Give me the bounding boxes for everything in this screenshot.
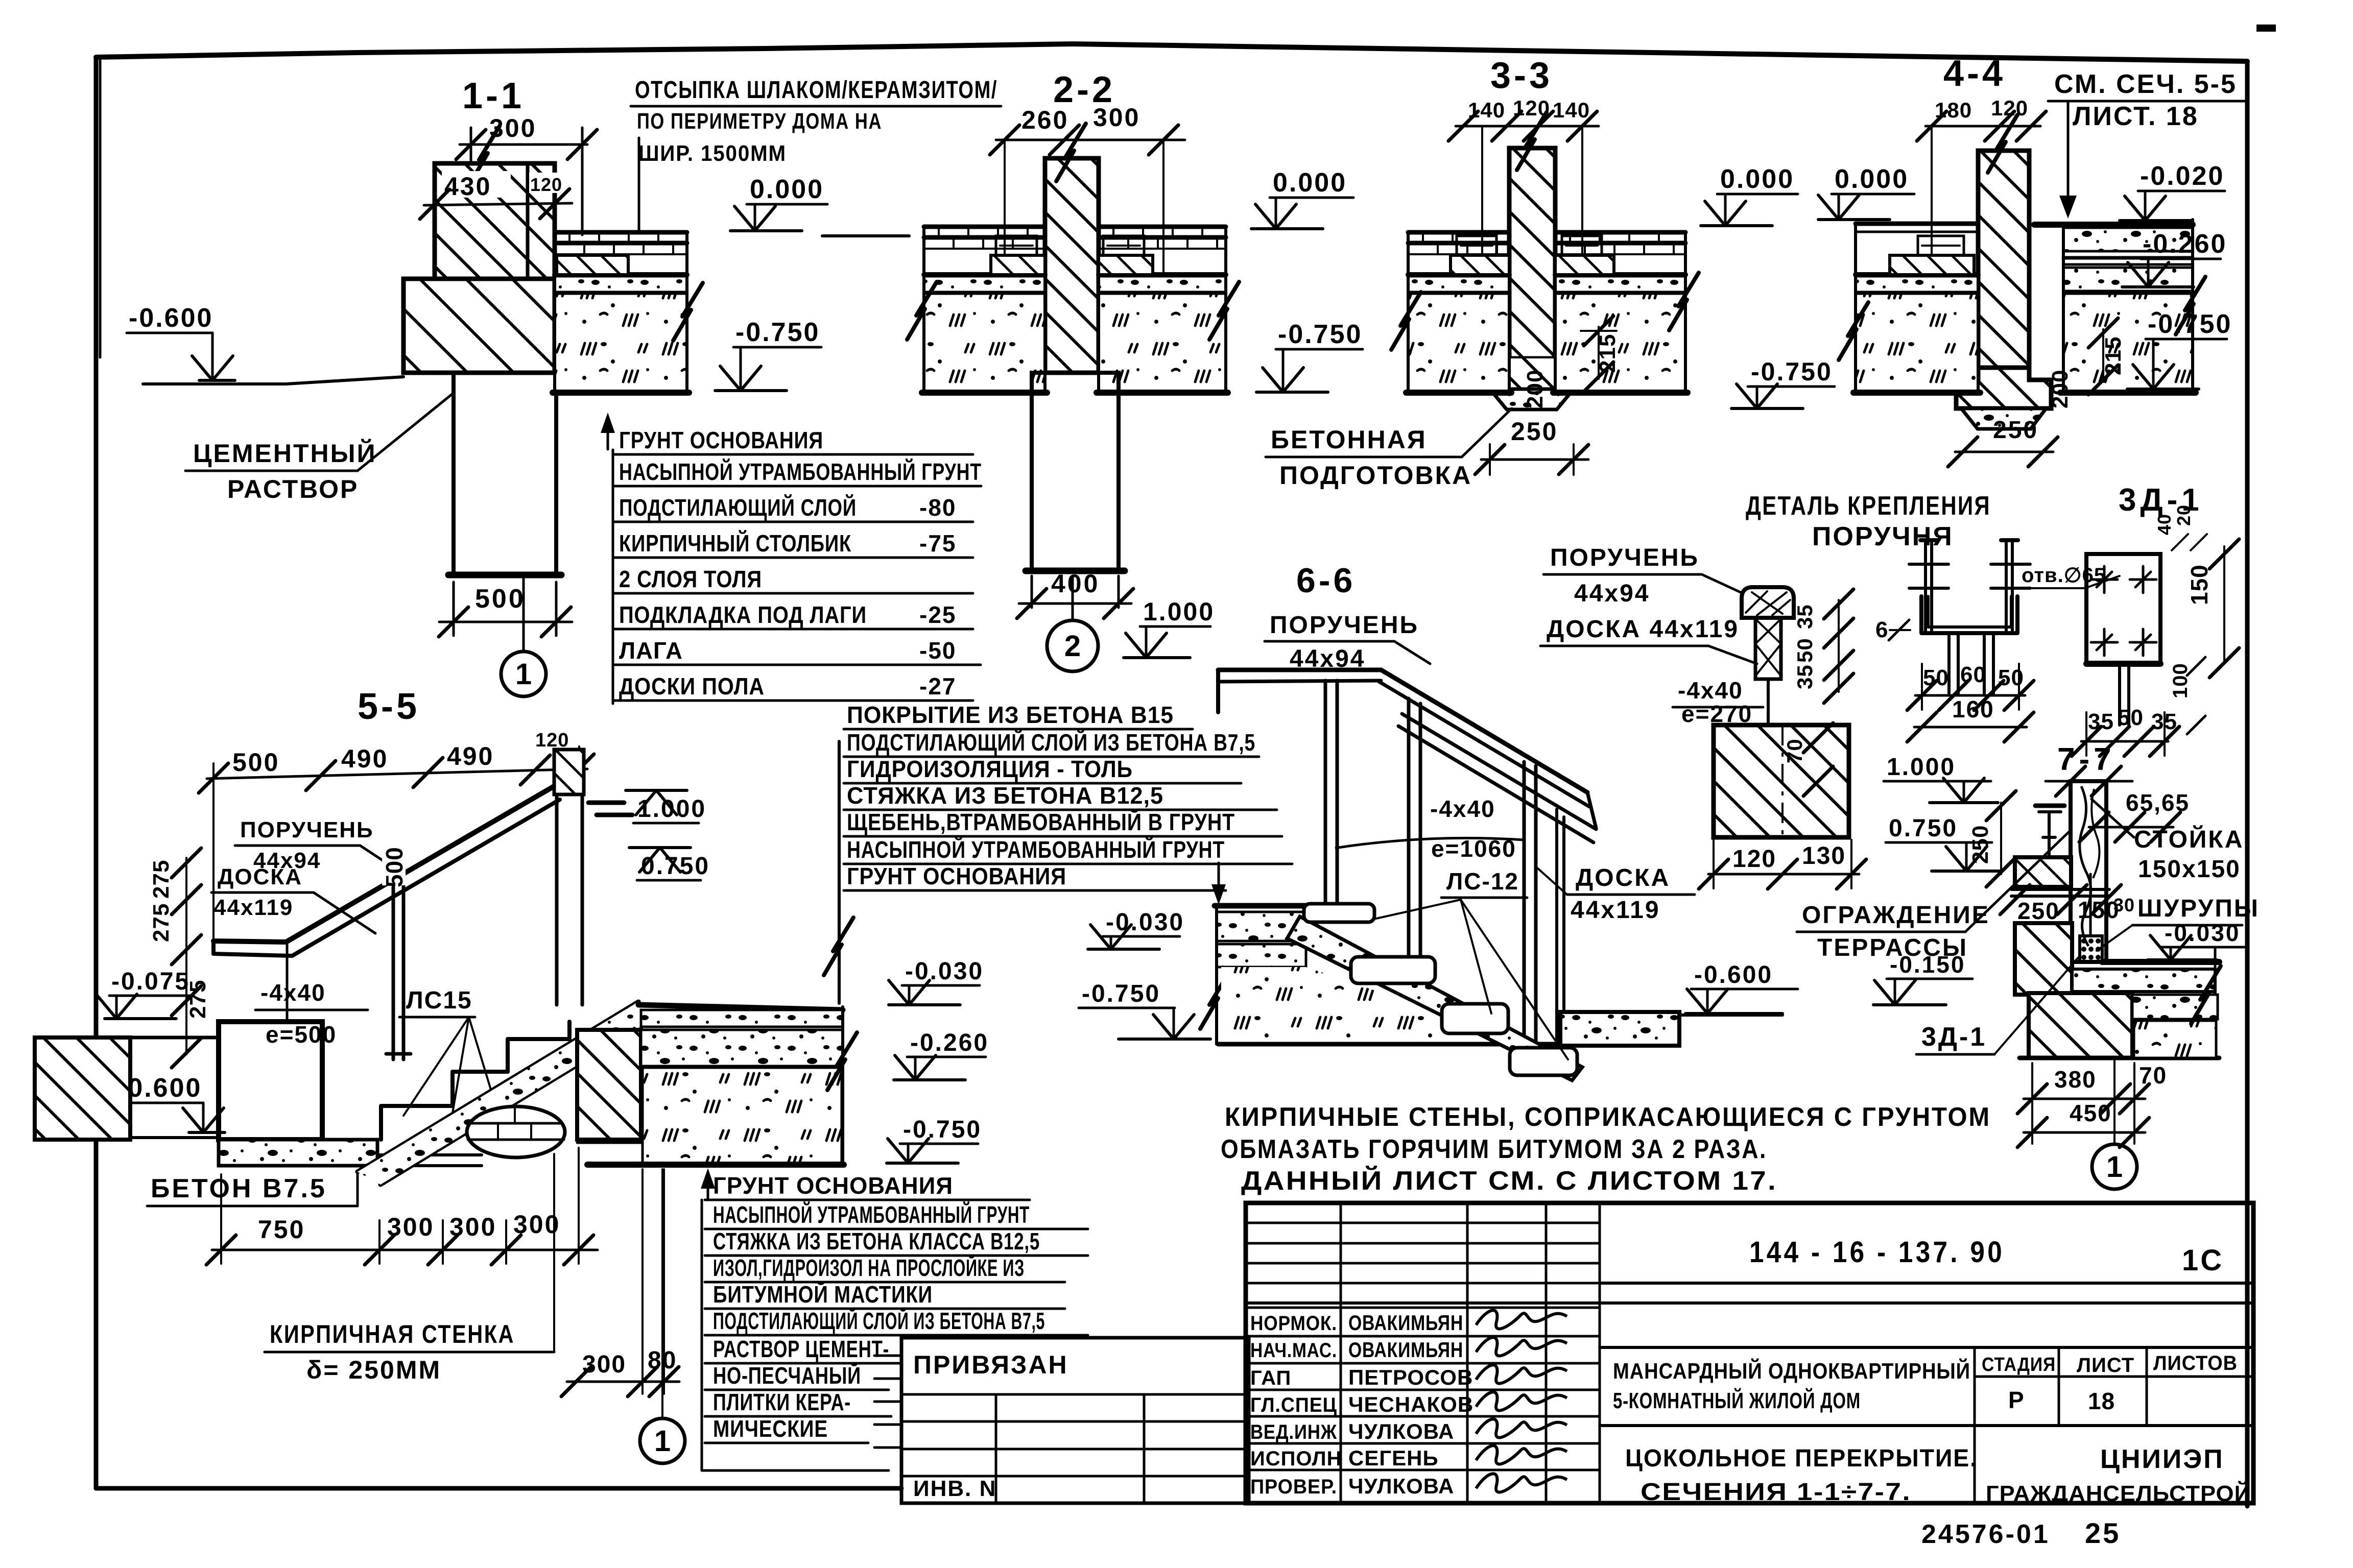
section 6-6 post 1 bbox=[1324, 681, 1327, 905]
svg-text:ЧЕСНАКОВ: ЧЕСНАКОВ bbox=[1348, 1392, 1473, 1416]
section 2-2 wall column hatched bbox=[1045, 158, 1099, 373]
svg-text:1.000: 1.000 bbox=[637, 795, 706, 823]
section 4-4 column footing hatched bbox=[1956, 368, 2051, 408]
section 4-4 right floor break bbox=[2176, 277, 2205, 334]
svg-text:275: 275 bbox=[149, 860, 174, 899]
svg-text:380: 380 bbox=[2054, 1066, 2097, 1093]
svg-text:ЦЕМЕНТНЫЙ: ЦЕМЕНТНЫЙ bbox=[193, 439, 377, 468]
section 2-2 right floor slab bbox=[1099, 225, 1226, 229]
level 0.750 (5-5) bbox=[629, 846, 691, 849]
svg-text:ДЕТАЛЬ КРЕПЛЕНИЯ: ДЕТАЛЬ КРЕПЛЕНИЯ bbox=[1746, 491, 1991, 521]
svg-text:МАНСАРДНЫЙ ОДНОКВАРТИРНЫЙ: МАНСАРДНЫЙ ОДНОКВАРТИРНЫЙ bbox=[1613, 1358, 1970, 1384]
svg-text:ДОСКА: ДОСКА bbox=[218, 864, 302, 889]
svg-text:-0.030: -0.030 bbox=[2165, 920, 2240, 946]
section 3-3 concrete pad bbox=[1490, 389, 1574, 409]
svg-text:5-КОМНАТНЫЙ ЖИЛОЙ ДОМ: 5-КОМНАТНЫЙ ЖИЛОЙ ДОМ bbox=[1613, 1387, 1861, 1413]
svg-text:ВЕД.ИНЖ: ВЕД.ИНЖ bbox=[1250, 1421, 1337, 1443]
svg-text:4-4: 4-4 bbox=[1943, 53, 2006, 94]
svg-text:0.750: 0.750 bbox=[1889, 815, 1958, 842]
section 5-5 upper floor slab right bbox=[638, 1005, 843, 1010]
svg-text:РАСТВОР: РАСТВОР bbox=[227, 475, 359, 503]
svg-text:НАЧ.МАС.: НАЧ.МАС. bbox=[1250, 1339, 1337, 1362]
svg-text:500: 500 bbox=[475, 584, 526, 614]
detail bolt shaft bbox=[1767, 679, 1770, 794]
svg-text:44x119: 44x119 bbox=[213, 895, 293, 920]
svg-text:120: 120 bbox=[1732, 846, 1776, 873]
section 7-7 upper pier block bbox=[2015, 857, 2071, 887]
section 5-5 concrete slab B7.5 bbox=[219, 1140, 377, 1166]
svg-text:-0.260: -0.260 bbox=[910, 1029, 989, 1056]
section 2-2 left floor slab bbox=[924, 225, 1045, 229]
section 6-6 left slab layers bbox=[1215, 903, 1309, 909]
svg-text:44x119: 44x119 bbox=[1571, 897, 1660, 924]
svg-text:140: 140 bbox=[1553, 98, 1590, 122]
svg-text:70: 70 bbox=[2139, 1062, 2167, 1089]
svg-text:БИТУМНОЙ МАСТИКИ: БИТУМНОЙ МАСТИКИ bbox=[713, 1281, 933, 1308]
svg-text:6-6: 6-6 bbox=[1296, 561, 1356, 600]
svg-text:50: 50 bbox=[1793, 638, 1817, 663]
svg-text:3Д-1: 3Д-1 bbox=[1921, 1022, 1987, 1052]
svg-text:1: 1 bbox=[654, 1425, 671, 1458]
svg-text:ОТСЫПКА ШЛАКОМ/КЕРАМЗИТОМ/: ОТСЫПКА ШЛАКОМ/КЕРАМЗИТОМ/ bbox=[635, 77, 997, 104]
section 3-3 left floor break bbox=[1391, 292, 1421, 350]
section 7-7 wooden post bbox=[2071, 781, 2106, 962]
section 6-6 step 1 bbox=[1304, 904, 1374, 922]
layers list (floor build-up table 1) bbox=[612, 450, 614, 704]
svg-text:ГИДРОИЗОЛЯЦИЯ - ТОЛЬ: ГИДРОИЗОЛЯЦИЯ - ТОЛЬ bbox=[847, 756, 1133, 782]
svg-text:100: 100 bbox=[2169, 663, 2192, 698]
svg-text:750: 750 bbox=[258, 1215, 305, 1244]
svg-text:0.000: 0.000 bbox=[1720, 164, 1794, 194]
section 7-7 node circle 1 bbox=[2092, 1144, 2137, 1189]
note sm sech leader arrow bbox=[2067, 101, 2070, 204]
svg-text:КИРПИЧНЫЕ СТЕНЫ, СОПРИКАСАЮЩИЕ: КИРПИЧНЫЕ СТЕНЫ, СОПРИКАСАЮЩИЕСЯ С ГРУНТ… bbox=[1225, 1102, 1991, 1132]
svg-text:СТАДИЯ: СТАДИЯ bbox=[1982, 1354, 2056, 1376]
section 7-7 lower floor right bbox=[2132, 995, 2218, 1019]
svg-text:НОРМОК.: НОРМОК. bbox=[1250, 1312, 1337, 1335]
svg-text:ПОРУЧЕНЬ: ПОРУЧЕНЬ bbox=[1270, 612, 1419, 639]
svg-text:130: 130 bbox=[1802, 842, 1846, 870]
svg-text:ПОДСТИЛАЮЩИЙ СЛОЙ: ПОДСТИЛАЮЩИЙ СЛОЙ bbox=[619, 494, 857, 521]
svg-text:ПОКРЫТИЕ ИЗ БЕТОНА В15: ПОКРЫТИЕ ИЗ БЕТОНА В15 bbox=[847, 702, 1174, 728]
svg-text:ПОДГОТОВКА: ПОДГОТОВКА bbox=[1279, 461, 1472, 490]
svg-text:ЦОКОЛЬНОЕ ПЕРЕКРЫТИЕ.: ЦОКОЛЬНОЕ ПЕРЕКРЫТИЕ. bbox=[1625, 1445, 1978, 1472]
svg-text:450: 450 bbox=[2070, 1100, 2112, 1126]
note otsypka leader bbox=[638, 138, 640, 231]
section 2-2 foundation pier bbox=[1032, 373, 1119, 571]
svg-text:35: 35 bbox=[1793, 664, 1817, 689]
section 6-6 left slab break bbox=[1200, 971, 1230, 1029]
svg-text:ГРАЖДАНСЕЛЬСТРОЙ: ГРАЖДАНСЕЛЬСТРОЙ bbox=[1986, 1480, 2251, 1506]
section 5-5 anchor symbol bbox=[588, 801, 624, 805]
svg-text:-4x40: -4x40 bbox=[1430, 795, 1495, 822]
section 5-5 stone blob bbox=[467, 1106, 565, 1157]
svg-text:ПОДКЛАДКА ПОД ЛАГИ: ПОДКЛАДКА ПОД ЛАГИ bbox=[619, 601, 867, 628]
svg-text:ЩЕБЕНЬ,ВТРАМБОВАННЫЙ В ГРУНТ: ЩЕБЕНЬ,ВТРАМБОВАННЫЙ В ГРУНТ bbox=[847, 809, 1235, 835]
title block signatures bbox=[1476, 1310, 1567, 1329]
svg-text:НАСЫПНОЙ УТРАМБОВАННЫЙ ГРУНТ: НАСЫПНОЙ УТРАМБОВАННЫЙ ГРУНТ bbox=[847, 836, 1225, 863]
svg-text:300: 300 bbox=[582, 1351, 626, 1378]
svg-text:ОГРАЖДЕНИЕ: ОГРАЖДЕНИЕ bbox=[1802, 902, 1990, 929]
svg-text:0.750: 0.750 bbox=[641, 853, 710, 880]
svg-text:150: 150 bbox=[2186, 564, 2213, 605]
drawing frame border bbox=[96, 44, 2247, 61]
section 6-6 stringer band bbox=[1287, 916, 1582, 1080]
detail pier hatched bbox=[1714, 725, 1849, 837]
svg-text:СТОЙКА: СТОЙКА bbox=[2134, 825, 2244, 853]
svg-text:-50: -50 bbox=[919, 637, 956, 664]
svg-text:250: 250 bbox=[1968, 825, 1993, 864]
section 6-6 bottom landing slab bbox=[1560, 1012, 1679, 1046]
section 4-4 wall column hatched bbox=[1978, 151, 2029, 368]
svg-text:ГРУНТ ОСНОВАНИЯ: ГРУНТ ОСНОВАНИЯ bbox=[847, 863, 1066, 889]
detail vertical dims 35 50 35 bbox=[1838, 600, 1840, 692]
svg-text:160: 160 bbox=[1952, 696, 1994, 722]
section 6-6 handrail sloped bbox=[1381, 670, 1587, 792]
svg-text:44x94: 44x94 bbox=[1574, 580, 1650, 607]
svg-text:ДОСКИ ПОЛА: ДОСКИ ПОЛА bbox=[619, 673, 765, 699]
section 1-1 floor break mark bbox=[673, 283, 703, 341]
section 7-7 big pier hatched bbox=[2029, 993, 2132, 1058]
section 6-6 note leader arrow bbox=[1218, 863, 1220, 900]
section 7-7 terrace slab bbox=[2102, 959, 2219, 965]
bracket U-channel bolts bbox=[1924, 543, 1927, 631]
section 6-6 stair mass bbox=[1221, 967, 1532, 1044]
bracket U-channel legs bbox=[1947, 633, 1951, 693]
section 3-3 column footing bbox=[1484, 358, 1581, 389]
section 5-5 handrail post 2 bbox=[555, 795, 559, 1005]
section 7-7 lower pier hatched bbox=[2015, 923, 2072, 995]
svg-text:150x150: 150x150 bbox=[2138, 856, 2241, 883]
section 3-3 left floor slab bbox=[1408, 230, 1509, 235]
section 4-4 right terrace floor bbox=[2034, 222, 2193, 228]
svg-text:40: 40 bbox=[2154, 514, 2175, 535]
svg-text:50: 50 bbox=[1923, 665, 1949, 690]
svg-text:ПОРУЧЕНЬ: ПОРУЧЕНЬ bbox=[1550, 544, 1699, 571]
svg-text:ИЗОЛ,ГИДРОИЗОЛ НА ПРОСЛОЙКЕ И: ИЗОЛ,ГИДРОИЗОЛ НА ПРОСЛОЙКЕ ИЗ bbox=[713, 1255, 1025, 1281]
svg-text:ПЛИТКИ КЕРА-: ПЛИТКИ КЕРА- bbox=[713, 1389, 851, 1415]
svg-text:ЛАГА: ЛАГА bbox=[619, 637, 683, 664]
svg-text:-0.150: -0.150 bbox=[1890, 951, 1965, 978]
section 5-5 stringer band sloped bbox=[358, 1002, 638, 1172]
section 2-2 node circle 2 bbox=[1047, 620, 1098, 671]
svg-text:275: 275 bbox=[149, 903, 174, 942]
svg-text:-0.020: -0.020 bbox=[2140, 161, 2224, 191]
section 6-6 step 3 bbox=[1442, 1004, 1508, 1033]
bracket plate holes crosses bbox=[2091, 578, 2118, 581]
section 6-6 step 4 bbox=[1510, 1048, 1577, 1075]
svg-text:6: 6 bbox=[1875, 617, 1888, 642]
svg-text:ШУРУПЫ: ШУРУПЫ bbox=[2137, 895, 2260, 922]
section 5-5 vertical dims 275 bbox=[185, 858, 187, 1054]
section 6-6 handrail flat bbox=[1218, 668, 1381, 672]
detail plank bbox=[1755, 618, 1781, 679]
svg-text:-0.030: -0.030 bbox=[1106, 909, 1184, 936]
svg-text:ГРУНТ ОСНОВАНИЯ: ГРУНТ ОСНОВАНИЯ bbox=[713, 1172, 953, 1199]
svg-text:0.000: 0.000 bbox=[750, 175, 824, 204]
svg-text:3-3: 3-3 bbox=[1490, 55, 1553, 96]
svg-text:300: 300 bbox=[1093, 103, 1140, 132]
section 1-1 dim 430 bbox=[442, 171, 511, 198]
section 5-5 wall edge above floor bbox=[838, 741, 841, 1003]
section 5-5 right wall hatched bbox=[577, 1030, 641, 1140]
svg-text:НАСЫПНОЙ УТРАМБОВАННЫЙ ГРУНТ: НАСЫПНОЙ УТРАМБОВАННЫЙ ГРУНТ bbox=[713, 1201, 1030, 1228]
svg-text:ПО ПЕРИМЕТРУ ДОМА НА: ПО ПЕРИМЕТРУ ДОМА НА bbox=[637, 109, 882, 134]
layers list (floor build-up table 2) bbox=[701, 1200, 703, 1470]
svg-text:490: 490 bbox=[447, 742, 494, 770]
svg-text:ГЛ.СПЕЦ: ГЛ.СПЕЦ bbox=[1250, 1394, 1337, 1416]
svg-text:Р: Р bbox=[2008, 1387, 2025, 1413]
svg-text:ПОРУЧЕНЬ: ПОРУЧЕНЬ bbox=[240, 817, 374, 842]
svg-text:7-7: 7-7 bbox=[2057, 742, 2116, 777]
svg-text:20: 20 bbox=[2173, 504, 2194, 526]
svg-text:РАСТВОР ЦЕМЕНТ-: РАСТВОР ЦЕМЕНТ- bbox=[713, 1336, 889, 1362]
svg-text:ЛИСТ: ЛИСТ bbox=[2077, 1354, 2134, 1377]
svg-text:-0.750: -0.750 bbox=[1751, 357, 1833, 386]
svg-text:25: 25 bbox=[2085, 1517, 2121, 1549]
section 6-6 ground line right bbox=[1680, 1014, 1782, 1017]
section 5-5 steps bbox=[381, 1022, 569, 1140]
section 3-3 wall column hatched bbox=[1509, 148, 1555, 358]
svg-text:КИРПИЧНЫЙ СТОЛБИК: КИРПИЧНЫЙ СТОЛБИК bbox=[619, 530, 851, 557]
svg-text:1: 1 bbox=[2106, 1150, 2123, 1184]
svg-text:БЕТОН В7.5: БЕТОН В7.5 bbox=[151, 1174, 327, 1203]
svg-text:500: 500 bbox=[381, 847, 408, 887]
svg-text:5-5: 5-5 bbox=[358, 686, 420, 727]
bracket U-channel body bbox=[1921, 596, 2017, 633]
section 1-1 upper wall hatched bbox=[435, 163, 555, 279]
svg-text:e=500: e=500 bbox=[266, 1021, 337, 1048]
svg-text:ОВАКИМЬЯН: ОВАКИМЬЯН bbox=[1348, 1338, 1463, 1362]
section 3-3 right floor slab bbox=[1555, 230, 1685, 235]
svg-text:0.000: 0.000 bbox=[1273, 168, 1347, 198]
svg-text:НО-ПЕСЧАНЫЙ: НО-ПЕСЧАНЫЙ bbox=[713, 1362, 861, 1389]
section 5-5 floor break right bbox=[827, 1032, 857, 1090]
svg-text:18: 18 bbox=[2088, 1388, 2115, 1414]
svg-text:ЛИСТОВ: ЛИСТОВ bbox=[2153, 1352, 2238, 1374]
svg-text:430: 430 bbox=[444, 172, 491, 201]
svg-text:ЧУЛКОВА: ЧУЛКОВА bbox=[1348, 1419, 1454, 1443]
svg-text:35: 35 bbox=[2088, 709, 2114, 734]
svg-text:ДАННЫЙ ЛИСТ СМ. С ЛИСТОМ: ДАННЫЙ ЛИСТ СМ. С ЛИСТОМ 17. bbox=[1241, 1166, 1777, 1196]
svg-text:1: 1 bbox=[515, 658, 532, 691]
svg-text:СТЯЖКА ИЗ БЕТОНА В12,5: СТЯЖКА ИЗ БЕТОНА В12,5 bbox=[847, 782, 1163, 809]
svg-text:250: 250 bbox=[1511, 417, 1558, 446]
section 2-2 left floor break bbox=[907, 282, 937, 340]
svg-text:ПОДСТИЛАЮЩИЙ СЛОЙ ИЗ БЕТОНА В7: ПОДСТИЛАЮЩИЙ СЛОЙ ИЗ БЕТОНА В7,5 bbox=[847, 729, 1255, 756]
section 4-4 left floor slab bbox=[1856, 222, 1978, 226]
svg-text:БЕТОННАЯ: БЕТОННАЯ bbox=[1271, 425, 1427, 454]
svg-text:-80: -80 bbox=[919, 494, 956, 521]
section 7-7 bolt bbox=[2035, 804, 2064, 808]
svg-text:СЕЧЕНИЯ 1-1÷7-7.: СЕЧЕНИЯ 1-1÷7-7. bbox=[1641, 1479, 1911, 1506]
svg-text:-0.030: -0.030 bbox=[905, 958, 984, 985]
svg-text:490: 490 bbox=[341, 744, 388, 773]
svg-text:1-1: 1-1 bbox=[462, 76, 525, 116]
svg-text:250: 250 bbox=[2017, 898, 2060, 924]
svg-text:КИРПИЧНАЯ СТЕНКА: КИРПИЧНАЯ СТЕНКА bbox=[270, 1320, 515, 1348]
svg-text:δ= 250ММ: δ= 250ММ bbox=[306, 1356, 441, 1384]
section 1-1 lower wall hatched bbox=[403, 279, 555, 373]
section 2-2 dim 400 bbox=[1031, 576, 1033, 608]
bracket plate leg bbox=[2118, 664, 2121, 725]
svg-text:ОВАКИМЬЯН: ОВАКИМЬЯН bbox=[1348, 1311, 1463, 1335]
section 1-1 foundation pier bbox=[454, 373, 556, 575]
svg-text:e=1060: e=1060 bbox=[1431, 835, 1516, 862]
svg-text:-0.750: -0.750 bbox=[2148, 309, 2232, 339]
svg-text:отв.∅65: отв.∅65 bbox=[2022, 564, 2106, 587]
section 5-5 brick wall block (white) bbox=[219, 1022, 322, 1140]
svg-text:ДОСКА: ДОСКА bbox=[1576, 864, 1670, 891]
section 5-5 walk surface line bbox=[130, 1036, 219, 1040]
section 5-5 node circle 1 bottom bbox=[640, 1418, 685, 1463]
section 6-6 post 3 bbox=[1523, 762, 1526, 1046]
section 4-4 left floor break bbox=[1839, 302, 1868, 360]
svg-text:200: 200 bbox=[2048, 370, 2073, 408]
top right registration mark bbox=[2256, 25, 2276, 32]
bracket plate body bbox=[2086, 554, 2160, 664]
svg-text:ГАП: ГАП bbox=[1250, 1367, 1291, 1389]
svg-text:ОБМАЗАТЬ ГОРЯЧИМ БИТУМОМ ЗА: ОБМАЗАТЬ ГОРЯЧИМ БИТУМОМ ЗА 2 РАЗА. bbox=[1221, 1135, 1767, 1164]
svg-text:2 СЛОЯ ТОЛЯ: 2 СЛОЯ ТОЛЯ bbox=[619, 566, 762, 592]
svg-text:0.000: 0.000 bbox=[1835, 164, 1909, 194]
svg-text:ПРОВЕР.: ПРОВЕР. bbox=[1250, 1476, 1337, 1498]
svg-text:30: 30 bbox=[2113, 895, 2135, 915]
svg-text:-4x40: -4x40 bbox=[1678, 677, 1743, 704]
svg-text:-4x40: -4x40 bbox=[260, 979, 326, 1006]
section 6-6 handrail end bar bbox=[1216, 670, 1220, 712]
svg-text:50: 50 bbox=[1998, 665, 2024, 690]
svg-text:-0.600: -0.600 bbox=[129, 303, 213, 333]
section 1-1 node circle 1 bbox=[501, 652, 546, 696]
svg-text:-0.750: -0.750 bbox=[735, 318, 820, 347]
svg-text:ИСПОЛН: ИСПОЛН bbox=[1250, 1448, 1342, 1470]
svg-text:-0.750: -0.750 bbox=[1082, 980, 1160, 1007]
svg-text:ЛС15: ЛС15 bbox=[406, 987, 472, 1014]
svg-text:-25: -25 bbox=[919, 601, 956, 628]
section 7-7 screw block bbox=[2080, 936, 2102, 962]
svg-text:ЛИСТ. 18: ЛИСТ. 18 bbox=[2073, 102, 2199, 131]
svg-text:ПОДСТИЛАЮЩИЙ СЛОЙ ИЗ БЕТОНА В: ПОДСТИЛАЮЩИЙ СЛОЙ ИЗ БЕТОНА В7,5 bbox=[713, 1308, 1045, 1334]
svg-text:СЕГЕНЬ: СЕГЕНЬ bbox=[1348, 1446, 1439, 1470]
section 6-6 post 2 bbox=[1407, 698, 1411, 982]
title block grid bbox=[1246, 1203, 2253, 1503]
svg-text:ПРИВЯЗАН: ПРИВЯЗАН bbox=[913, 1350, 1068, 1379]
level 1.000 (5-5) bbox=[626, 789, 687, 792]
svg-text:500: 500 bbox=[232, 748, 279, 777]
detail handrail profile bbox=[1742, 587, 1794, 618]
section 6-6 step 2 bbox=[1351, 957, 1435, 983]
svg-text:-0.750: -0.750 bbox=[1278, 320, 1362, 349]
svg-text:-27: -27 bbox=[919, 673, 956, 699]
svg-text:200: 200 bbox=[1523, 370, 1548, 408]
svg-text:1С: 1С bbox=[2182, 1244, 2224, 1277]
svg-text:СТЯЖКА ИЗ БЕТОНА КЛАССА В12,5: СТЯЖКА ИЗ БЕТОНА КЛАССА В12,5 bbox=[713, 1228, 1040, 1255]
svg-text:ГРУНТ ОСНОВАНИЯ: ГРУНТ ОСНОВАНИЯ bbox=[619, 427, 823, 453]
section 5-5 baluster at bend bbox=[286, 944, 289, 1022]
svg-text:НАСЫПНОЙ УТРАМБОВАННЫЙ ГРУНТ: НАСЫПНОЙ УТРАМБОВАННЫЙ ГРУНТ bbox=[619, 459, 982, 485]
privyazan table left ticks bbox=[874, 1355, 901, 1357]
section 2-2 right floor break bbox=[1209, 282, 1239, 340]
svg-text:ЦНИИЭП: ЦНИИЭП bbox=[2100, 1444, 2224, 1474]
section 5-5 handrail sloped bbox=[286, 785, 556, 942]
svg-text:2: 2 bbox=[1064, 630, 1081, 663]
section 4-4 concrete pad bbox=[1961, 408, 2046, 429]
svg-text:СМ. СЕЧ. 5-5: СМ. СЕЧ. 5-5 bbox=[2054, 69, 2237, 99]
svg-text:-75: -75 bbox=[919, 530, 956, 557]
svg-text:ДОСКА 44x119: ДОСКА 44x119 bbox=[1547, 616, 1739, 643]
section 5-5 handrail post 1 bbox=[392, 887, 395, 1059]
section 3-3 right floor break bbox=[1669, 273, 1699, 330]
svg-text:ИНВ. N: ИНВ. N bbox=[913, 1476, 996, 1501]
svg-text:144 - 16 - 137. 90: 144 - 16 - 137. 90 bbox=[1749, 1236, 2005, 1269]
svg-text:260: 260 bbox=[1021, 106, 1068, 134]
section 5-5 left wall hatched bbox=[35, 1038, 130, 1140]
svg-text:-0.750: -0.750 bbox=[903, 1116, 982, 1143]
section 5-5 wall block top right hatched bbox=[554, 750, 584, 794]
svg-text:35: 35 bbox=[1793, 604, 1817, 629]
section 5-5 dim 500 rotated bbox=[382, 828, 406, 885]
svg-text:ПЕТРОСОВ: ПЕТРОСОВ bbox=[1348, 1365, 1473, 1389]
privyazan table block bbox=[901, 1338, 1249, 1503]
svg-text:-0.600: -0.600 bbox=[1694, 961, 1773, 988]
section 1-1 floor slab bbox=[555, 230, 687, 235]
svg-text:ЛС-12: ЛС-12 bbox=[1446, 868, 1519, 895]
svg-text:1.000: 1.000 bbox=[1143, 597, 1215, 626]
svg-text:120: 120 bbox=[530, 174, 562, 195]
svg-text:ЧУЛКОВА: ЧУЛКОВА bbox=[1348, 1474, 1454, 1498]
section 6-6 doska sloped board bbox=[1402, 714, 1596, 829]
svg-text:ШИР. 1500ММ: ШИР. 1500ММ bbox=[638, 141, 787, 166]
section 1-1 dim 500 bbox=[453, 582, 455, 636]
svg-text:-0.260: -0.260 bbox=[2143, 229, 2227, 259]
section 6-6 end board vertical bbox=[1555, 809, 1558, 1042]
svg-text:МИЧЕСКИЕ: МИЧЕСКИЕ bbox=[713, 1415, 828, 1442]
svg-text:400: 400 bbox=[1051, 569, 1100, 598]
svg-text:-0.075: -0.075 bbox=[111, 968, 190, 995]
svg-text:1.000: 1.000 bbox=[1887, 754, 1956, 781]
svg-text:250: 250 bbox=[1993, 417, 2038, 444]
svg-text:24576-01: 24576-01 bbox=[1921, 1519, 2050, 1549]
